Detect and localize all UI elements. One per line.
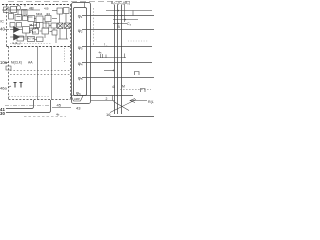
gate G4: [23, 27, 30, 34]
divider D5: [45, 16, 51, 22]
svg-text:C₄: C₄: [127, 22, 132, 26]
wire light ray diagonal 1: [110, 100, 136, 113]
svg-text:45: 45: [57, 103, 62, 108]
transistor gate tick 2: [102, 54, 104, 58]
divider D4: [36, 16, 43, 23]
wire row4: [24, 38, 28, 40]
svg-text:4₇(4₁₄): 4₇(4₁₄): [12, 41, 21, 45]
svg-text:M(CLK): M(CLK): [11, 61, 22, 65]
transistor gate tick 3: [105, 55, 107, 59]
gate row4 B1: [17, 36, 24, 41]
wire top h y19: [113, 19, 138, 21]
node sync block dashed bottom edge: [9, 99, 71, 101]
wire row3b: [40, 30, 42, 32]
gate G6: [42, 28, 49, 34]
wire drop H: [53, 28, 55, 30]
gate G1: [34, 23, 40, 28]
wire arrow 10: [5, 62, 10, 64]
ground G2 mark: [20, 83, 23, 88]
transistor gate tick 1: [100, 54, 102, 58]
wire amp bottom line: [52, 107, 71, 109]
divider D2 tick: [17, 16, 21, 18]
wire drop I: [25, 33, 27, 37]
register inner box 2: [74, 8, 87, 96]
node sync block dashed right edge: [70, 47, 72, 100]
wire phi6 to out tick: [112, 96, 114, 101]
wire row2: [30, 25, 34, 27]
amplifier AMP trapezoid: [71, 96, 83, 102]
svg-text:l ..: l ..: [104, 43, 107, 47]
latch X2 cross: [65, 23, 71, 29]
divider D3 tick: [28, 16, 33, 18]
gate row4 B3: [37, 37, 44, 42]
buffer U2: [11, 7, 17, 13]
svg-text:φ₆: φ₆: [76, 90, 81, 95]
svg-text:30: 30: [0, 111, 5, 116]
svg-text:4b: 4b: [56, 113, 60, 117]
component shutter mark 2: [135, 72, 140, 76]
wire clock line phi1: [82, 15, 154, 17]
wire bus vertical B2: [117, 5, 119, 115]
wire chip notch: [84, 3, 86, 8]
svg-text:2: 2: [106, 97, 108, 101]
wire row2d: [49, 25, 51, 27]
gate F1: [10, 23, 15, 28]
divider D1: [9, 14, 14, 20]
divider D3: [28, 16, 35, 22]
latch X2: [65, 23, 71, 29]
wire row4b: [35, 39, 37, 41]
wire video out line: [91, 100, 115, 102]
wire drop G: [45, 22, 47, 27]
inverter A1: [14, 27, 20, 33]
svg-text:B₁C₁(C₂)(B₂): B₁C₁(C₂)(B₂): [111, 1, 130, 5]
logic block U6: [64, 8, 70, 14]
logic block U5: [57, 8, 63, 14]
inverter A2: [14, 34, 20, 40]
wire vertical bus V1: [37, 47, 39, 101]
wire stub x25: [24, 5, 26, 7]
gate G2: [43, 23, 49, 28]
svg-text:4B C4l: 4B C4l: [29, 23, 37, 27]
inverter U3: [16, 6, 20, 10]
node block 40 dashed right edge: [70, 5, 72, 47]
wire top h y10: [106, 10, 152, 12]
divider D2b: [23, 16, 28, 21]
svg-text:16: 16: [106, 112, 111, 117]
wire row3: [30, 30, 33, 32]
wire inv out B: [20, 36, 28, 38]
wire dashed h y74: [10, 74, 70, 76]
latch X1: [58, 23, 64, 29]
wire bus vertical B1: [114, 5, 116, 115]
wire chain line y105: [5, 105, 50, 107]
wire row1b: [52, 10, 57, 12]
wire read gate line: [96, 57, 126, 59]
wire row2a: [34, 18, 36, 20]
svg-text:4l4: 4l4: [46, 12, 50, 16]
component shutter mark: [141, 89, 146, 93]
wire dashed h y70: [10, 70, 70, 72]
wire arrow 40: [5, 29, 10, 31]
wire clock line phi4: [82, 62, 152, 64]
latch X1 cross: [58, 23, 64, 29]
wire drop J: [44, 35, 46, 39]
wire line 41: [6, 100, 34, 109]
wire bottom base line: [110, 116, 154, 118]
wire dotted row y43: [10, 43, 52, 45]
svg-text:AMP: AMP: [74, 97, 80, 101]
node sync block dashed top edge: [7, 46, 71, 48]
wire drop D: [59, 14, 61, 23]
node block 40 dashed left edge: [6, 5, 8, 47]
wire dotted row y41: [128, 40, 148, 42]
wire X2 drop: [66, 29, 68, 40]
wire dotted col x64: [64, 48, 66, 62]
wire top faint header line: [8, 1, 130, 3]
wire dashed y96: [9, 96, 51, 98]
wire drop E: [65, 14, 67, 24]
ground G1 mark: [14, 83, 17, 88]
gate G5: [33, 29, 39, 35]
wire vertical bus V2: [51, 47, 53, 101]
wire clock line phi5: [82, 77, 154, 79]
wire clock line phi3: [82, 46, 152, 48]
wire arrow R head: [130, 99, 135, 103]
wire row2b: [43, 18, 45, 20]
chip outer box 1: [72, 3, 91, 104]
wire row2c: [52, 18, 57, 20]
wire bus vertical B3: [121, 5, 123, 115]
svg-text:4l B.C: 4l B.C: [29, 30, 36, 34]
svg-text:40: 40: [0, 27, 5, 32]
wire row3c: [50, 31, 53, 33]
wire clock line phi2: [82, 29, 154, 31]
node junction dots bus: [114, 10, 126, 25]
wire drop A: [11, 13, 13, 14]
wire stub y70: [104, 70, 115, 72]
wire bottom dashed left: [24, 116, 66, 118]
wire arrow R shaft: [130, 100, 147, 102]
wire dashed chip boundary x93: [93, 8, 95, 47]
svg-text:WDL4 B: WDL4 B: [29, 26, 39, 30]
gate G3: [51, 23, 57, 28]
wire dashed y90: [120, 89, 151, 91]
svg-text:AA: AA: [28, 61, 33, 65]
svg-text:4l: 4l: [112, 85, 115, 89]
svg-text:MD4: MD4: [36, 12, 43, 16]
transistor gate tick 4: [124, 54, 126, 59]
svg-text:M: M: [122, 85, 125, 89]
gate row4 B2: [28, 37, 35, 42]
wire drop F: [36, 23, 38, 29]
svg-text:φ₄: φ₄: [78, 61, 83, 66]
gate G7: [52, 30, 57, 35]
svg-text:4lB: 4lB: [29, 6, 34, 10]
wire drop C: [24, 15, 26, 16]
wire inv in B: [10, 36, 14, 38]
wire inv out A: [20, 29, 23, 31]
capacitor C1 cluster: [6, 66, 11, 70]
svg-text:lC: lC: [1, 20, 5, 24]
svg-text:46a: 46a: [0, 86, 7, 91]
wire drop B: [17, 10, 19, 15]
node block 40 dashed bottom edge: [7, 46, 71, 48]
wire top h y23: [113, 23, 127, 25]
node clock-driver block 40 dashed top edge: [2, 4, 71, 6]
divider D2: [15, 15, 22, 21]
wire drop K: [55, 35, 57, 43]
wire row1: [2, 9, 40, 11]
svg-text:R(L): R(L): [148, 100, 154, 104]
svg-text:4.7 l4: 4.7 l4: [28, 37, 35, 41]
wire light ray diagonal 2: [114, 102, 130, 111]
wire tick join: [132, 11, 134, 16]
wire output line phi6: [82, 95, 133, 97]
svg-text:43: 43: [76, 106, 81, 111]
svg-text:φ₂: φ₂: [78, 28, 83, 33]
wire inv in A: [10, 29, 14, 31]
wire line 30: [6, 100, 51, 113]
counter U3b: [22, 10, 28, 16]
wire bus vertical B4: [124, 5, 126, 23]
wire X join: [58, 38, 68, 40]
oscillator U1: [4, 7, 10, 13]
gate F2: [17, 23, 22, 28]
svg-text:4.B: 4.B: [44, 6, 49, 10]
wire X1 drop: [59, 29, 61, 40]
svg-text:φ₃: φ₃: [78, 45, 83, 50]
node sync block dashed left edge: [8, 47, 10, 100]
